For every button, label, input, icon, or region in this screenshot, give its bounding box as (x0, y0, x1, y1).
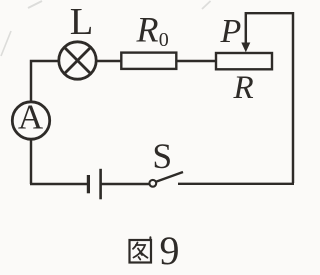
ammeter A (12, 102, 49, 139)
switch S: lever (156, 172, 183, 182)
scan smudge left edge (1, 31, 11, 56)
wire: lamp to R0 (97, 60, 121, 62)
slider arrowhead P (241, 43, 250, 53)
wire: left wire top segment (corner to ammeter) (31, 61, 58, 102)
switch S: pivot circle (149, 180, 156, 187)
wire: R0 to rheostat (176, 60, 216, 62)
svg-text:9: 9 (160, 228, 180, 273)
resistor R0 (121, 53, 176, 69)
lamp L (circle with X) (59, 42, 96, 79)
wire: battery to switch (102, 183, 150, 185)
battery cell: long plate (99, 169, 102, 200)
svg-text:S: S (152, 136, 172, 176)
svg-text:R: R (233, 70, 254, 106)
svg-text:R: R (136, 10, 159, 50)
battery cell: short plate (87, 175, 90, 193)
svg-text:A: A (18, 98, 44, 137)
wire: switch to bottom-right corner (178, 183, 294, 185)
wire: left wire bottom segment (ammeter to corner) (30, 139, 32, 184)
svg-text:0: 0 (159, 29, 169, 51)
caption: hanzi 图 (drawn) (130, 237, 152, 262)
wire: slider stem to top-right corner and right wire down (246, 13, 293, 183)
scan smudge top-right (202, 1, 211, 9)
scan smudge top-left (28, 1, 42, 8)
svg-text:P: P (220, 13, 242, 50)
rheostat R (slide rheostat box) (216, 53, 272, 69)
wire: bottom wire left segment (corner to battery) (30, 183, 87, 185)
svg-text:L: L (70, 1, 94, 43)
